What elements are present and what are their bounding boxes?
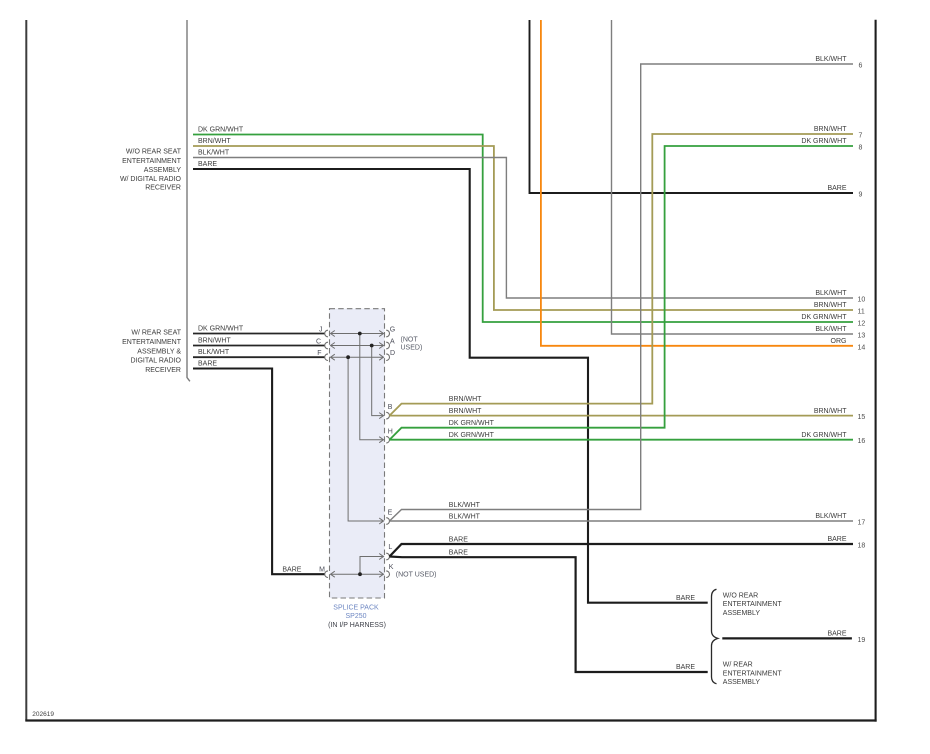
connector arc pin C <box>325 342 328 349</box>
svg-text:W/ REAR SEAT: W/ REAR SEAT <box>131 329 181 336</box>
svg-text:BARE: BARE <box>827 536 846 543</box>
svg-text:M: M <box>319 566 325 573</box>
svg-text:ASSEMBLY: ASSEMBLY <box>723 679 761 686</box>
frame right border <box>875 20 877 722</box>
terminal labels at right edge <box>801 56 847 543</box>
svg-text:B: B <box>388 404 393 411</box>
connector arc pin A <box>386 342 389 349</box>
svg-text:F: F <box>317 350 321 357</box>
svg-text:L: L <box>388 544 392 551</box>
svg-text:RECEIVER: RECEIVER <box>145 185 181 192</box>
svg-text:17: 17 <box>858 520 866 527</box>
svg-text:(NOT: (NOT <box>401 336 419 343</box>
svg-text:DK GRN/WHT: DK GRN/WHT <box>801 314 847 321</box>
wire BLK/WHT pin E to terminal 17 <box>390 520 854 522</box>
svg-text:DK GRN/WHT: DK GRN/WHT <box>801 432 847 439</box>
svg-text:ASSEMBLY: ASSEMBLY <box>144 167 182 174</box>
svg-text:BLK/WHT: BLK/WHT <box>449 513 481 520</box>
wire BARE from top to terminal 9 <box>530 20 854 193</box>
svg-text:BARE: BARE <box>198 161 217 168</box>
brace joining BARE wires <box>712 589 718 684</box>
svg-text:DK GRN/WHT: DK GRN/WHT <box>801 138 847 145</box>
splice internal bus J-G <box>331 331 384 337</box>
splice internal branch to pin B <box>372 346 384 419</box>
svg-text:15: 15 <box>858 414 866 421</box>
svg-text:DIGITAL RADIO: DIGITAL RADIO <box>130 358 181 365</box>
svg-text:BLK/WHT: BLK/WHT <box>815 326 847 333</box>
wire BRN/WHT pin B to terminal 15 <box>390 415 854 417</box>
svg-text:BLK/WHT: BLK/WHT <box>815 290 847 297</box>
svg-text:W/O REAR SEAT: W/O REAR SEAT <box>126 149 182 156</box>
svg-text:H: H <box>388 428 393 435</box>
svg-text:E: E <box>388 510 393 517</box>
wire DK GRN/WHT pin H to terminal 16 <box>390 439 854 441</box>
svg-text:BLK/WHT: BLK/WHT <box>815 513 847 520</box>
svg-text:G: G <box>390 327 395 334</box>
svg-text:ENTERTAINMENT: ENTERTAINMENT <box>122 158 182 165</box>
connector arc pin K <box>386 571 389 578</box>
svg-text:DK GRN/WHT: DK GRN/WHT <box>449 420 495 427</box>
svg-text:BARE: BARE <box>827 631 846 638</box>
wire BARE from W/O group to W/O REAR ENTERTAINMENT brace <box>193 169 708 603</box>
svg-text:ORG: ORG <box>831 338 847 345</box>
junction dot on J-G bus <box>358 332 362 336</box>
svg-text:BARE: BARE <box>282 566 301 573</box>
svg-text:DK GRN/WHT: DK GRN/WHT <box>198 127 244 134</box>
connector arc pin F <box>325 354 328 361</box>
svg-text:BRN/WHT: BRN/WHT <box>198 138 231 145</box>
junction dot on M-K bus <box>358 572 362 576</box>
splice internal branch to pin L <box>360 554 384 575</box>
svg-text:BLK/WHT: BLK/WHT <box>198 150 230 157</box>
wire BRN/WHT pin B to terminal 7 <box>390 134 854 416</box>
splice internal bus M-K <box>331 571 384 577</box>
svg-text:9: 9 <box>859 192 863 199</box>
wire DK GRN/WHT from W/O group to terminal 12 <box>193 135 853 323</box>
svg-text:BRN/WHT: BRN/WHT <box>814 302 847 309</box>
label W/ REAR ENTERTAINMENT ASSEMBLY <box>723 662 783 687</box>
svg-text:BARE: BARE <box>827 185 846 192</box>
svg-text:13: 13 <box>858 333 866 340</box>
svg-text:BARE: BARE <box>676 595 695 602</box>
svg-text:202619: 202619 <box>32 711 54 718</box>
svg-text:BLK/WHT: BLK/WHT <box>198 349 230 356</box>
wire ORG from top to terminal 14 <box>541 20 853 346</box>
terminal numbers <box>858 63 866 644</box>
svg-text:ASSEMBLY &: ASSEMBLY & <box>137 348 181 355</box>
junction dot on C-A bus <box>370 344 374 348</box>
connector arc pin L <box>386 553 389 560</box>
svg-text:W/ REAR: W/ REAR <box>723 662 753 669</box>
wire BLK/WHT pin E to terminal 6 <box>390 64 854 521</box>
svg-text:W/ DIGITAL RADIO: W/ DIGITAL RADIO <box>120 176 182 183</box>
svg-text:BARE: BARE <box>676 664 695 671</box>
connector arc pin J <box>325 330 328 337</box>
splice internal branch to pin E <box>348 357 383 524</box>
wire BLK/WHT from W/O group to terminal 10 <box>193 158 853 299</box>
svg-text:12: 12 <box>858 321 866 328</box>
svg-text:BRN/WHT: BRN/WHT <box>814 126 847 133</box>
svg-text:C: C <box>316 339 321 346</box>
svg-text:BARE: BARE <box>198 361 217 368</box>
label W/O REAR SEAT ENTERTAINMENT ASSEMBLY W/ DIGITAL RADIO RECEIVER <box>120 149 182 192</box>
wire BRN/WHT into splice pin C <box>193 345 325 347</box>
wire BARE pin L to terminal 18 <box>390 544 854 557</box>
svg-text:18: 18 <box>858 543 866 550</box>
wire DK GRN/WHT into splice pin J <box>193 333 325 335</box>
svg-text:(NOT USED): (NOT USED) <box>396 572 437 579</box>
svg-text:7: 7 <box>859 133 863 140</box>
connector arc pin D <box>386 354 389 361</box>
svg-text:(IN I/P HARNESS): (IN I/P HARNESS) <box>328 622 386 629</box>
wire DK GRN/WHT pin H to terminal 8 <box>390 146 854 440</box>
connector arc pin B <box>386 412 389 419</box>
wire BLK/WHT into splice pin F <box>193 356 325 358</box>
svg-text:ENTERTAINMENT: ENTERTAINMENT <box>122 339 182 346</box>
svg-text:6: 6 <box>859 63 863 70</box>
connector arc pin H <box>386 436 389 443</box>
svg-text:8: 8 <box>859 145 863 152</box>
splice internal bus F-D <box>331 354 384 360</box>
connector arc pin E <box>386 518 389 525</box>
svg-text:ASSEMBLY: ASSEMBLY <box>723 610 761 617</box>
svg-text:19: 19 <box>858 637 866 644</box>
wire BLK/WHT from top to terminal 13 <box>612 20 854 334</box>
svg-text:DK GRN/WHT: DK GRN/WHT <box>449 432 495 439</box>
svg-text:SP250: SP250 <box>345 613 366 620</box>
junction dot on F-D bus <box>346 355 350 359</box>
svg-text:RECEIVER: RECEIVER <box>145 367 181 374</box>
wire BARE into splice pin M <box>193 369 325 575</box>
connector arc pin M <box>325 571 328 578</box>
svg-text:16: 16 <box>858 438 866 445</box>
splice pack SP250 box <box>330 309 385 598</box>
svg-text:10: 10 <box>858 297 866 304</box>
frame left border <box>25 20 27 721</box>
label W/ REAR SEAT ENTERTAINMENT ASSEMBLY & DIGITAL RADIO RECEIVER <box>122 329 182 374</box>
svg-text:BLK/WHT: BLK/WHT <box>449 502 481 509</box>
wire BRN/WHT from W/O group to terminal 11 <box>193 146 853 310</box>
svg-text:ENTERTAINMENT: ENTERTAINMENT <box>723 670 783 677</box>
svg-text:BARE: BARE <box>449 537 468 544</box>
svg-text:USED): USED) <box>401 345 423 352</box>
svg-text:BRN/WHT: BRN/WHT <box>449 408 482 415</box>
group bracket (long vertical with hooked foot) <box>187 20 190 381</box>
svg-text:D: D <box>390 350 395 357</box>
svg-text:DK GRN/WHT: DK GRN/WHT <box>198 326 244 333</box>
svg-text:SPLICE PACK: SPLICE PACK <box>333 605 379 612</box>
svg-text:W/O REAR: W/O REAR <box>723 592 758 599</box>
splice internal branch to pin H <box>360 334 384 443</box>
svg-text:BRN/WHT: BRN/WHT <box>449 396 482 403</box>
svg-text:K: K <box>389 564 394 571</box>
svg-text:ENTERTAINMENT: ENTERTAINMENT <box>723 601 783 608</box>
label W/O REAR ENTERTAINMENT ASSEMBLY <box>723 592 783 617</box>
wire BARE brace to terminal 19 <box>722 637 852 639</box>
svg-text:A: A <box>390 339 395 346</box>
splice internal bus C-A <box>331 343 384 349</box>
svg-text:J: J <box>319 327 323 334</box>
svg-text:BRN/WHT: BRN/WHT <box>198 338 231 345</box>
svg-text:BARE: BARE <box>449 549 468 556</box>
svg-text:11: 11 <box>858 309 865 316</box>
wire BARE pin L to W/ REAR ENTERTAINMENT brace <box>390 557 708 673</box>
svg-text:14: 14 <box>858 344 866 351</box>
connector arc pin G <box>386 330 389 337</box>
svg-text:BLK/WHT: BLK/WHT <box>815 56 847 63</box>
frame bottom border <box>25 719 876 721</box>
svg-text:BRN/WHT: BRN/WHT <box>814 408 847 415</box>
